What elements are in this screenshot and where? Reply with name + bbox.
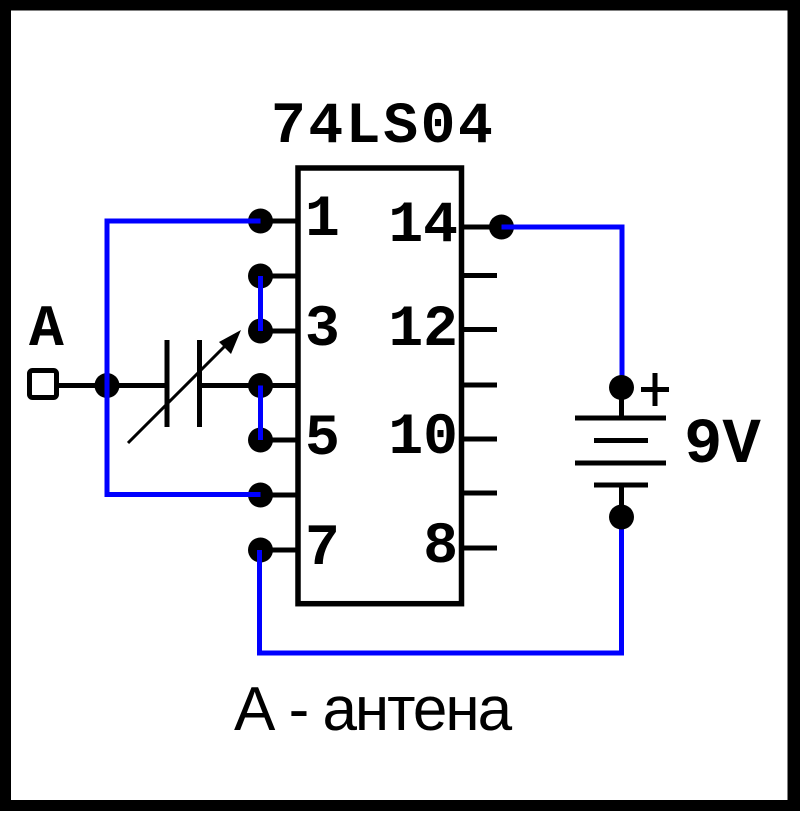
op-amp U1 74LS04 body xyxy=(298,168,462,604)
pin 2 stub xyxy=(248,264,298,289)
junction antenna wire with blue wire xyxy=(95,373,120,398)
wire pin 14 to battery positive xyxy=(502,227,623,383)
svg-text:А - антена: А - антена xyxy=(234,675,513,744)
battery BT1 negative lead xyxy=(619,485,624,505)
svg-text:3: 3 xyxy=(305,298,340,363)
svg-text:12: 12 xyxy=(388,298,458,363)
svg-text:74LS04: 74LS04 xyxy=(271,95,495,160)
wire pin 1 to pin 6 xyxy=(107,221,261,495)
battery BT1 plate 2 short xyxy=(594,438,648,443)
pin 11 stub xyxy=(462,383,497,388)
label 74LS04 xyxy=(271,95,495,160)
pin 3 stub xyxy=(248,319,298,344)
wire antenna terminal to capacitor C1 xyxy=(57,383,167,388)
label plus xyxy=(641,373,669,406)
pin 12 label xyxy=(388,298,458,363)
pin 3 label xyxy=(305,298,340,363)
pin 8 label xyxy=(423,515,458,580)
pin 10 label xyxy=(388,406,458,471)
svg-text:7: 7 xyxy=(305,517,340,582)
node battery negative terminal xyxy=(609,505,634,530)
pin 14 label xyxy=(388,194,458,259)
capacitor C1 right plate xyxy=(197,340,202,427)
pin 6 stub xyxy=(248,483,298,508)
pin 4 stub xyxy=(248,373,298,398)
node A antenna terminal xyxy=(30,371,57,398)
battery BT1 plate 4 short xyxy=(594,483,648,488)
svg-text:10: 10 xyxy=(388,406,458,471)
label 9V xyxy=(684,410,761,482)
pin 10 stub xyxy=(462,437,497,442)
pin 7 label xyxy=(305,517,340,582)
pin 5 label xyxy=(305,407,340,472)
battery BT1 plate 3 long xyxy=(575,461,666,466)
pin 13 stub xyxy=(462,273,497,278)
pin 12 stub xyxy=(462,327,497,332)
pin 1 label xyxy=(305,188,340,253)
svg-text:9V: 9V xyxy=(684,410,761,482)
svg-text:14: 14 xyxy=(388,194,458,259)
node battery positive terminal xyxy=(609,375,634,400)
wire pin 2 to pin 3 xyxy=(258,276,263,331)
wire pin 4 to pin 5 xyxy=(258,386,263,441)
pin 8 stub xyxy=(462,546,497,551)
svg-text:5: 5 xyxy=(305,407,340,472)
svg-text:1: 1 xyxy=(305,188,340,253)
wire capacitor C1 to pin 4 xyxy=(200,383,261,388)
pin 7 stub xyxy=(248,538,298,563)
capacitor C1 left plate xyxy=(165,340,170,427)
wire battery negative to pin 7 xyxy=(260,517,622,653)
battery BT1 positive lead xyxy=(619,388,624,419)
battery BT1 plate 1 long xyxy=(575,416,666,421)
pin 1 stub xyxy=(248,209,298,234)
svg-text:A: A xyxy=(29,298,64,363)
label A xyxy=(29,298,64,363)
pin 5 stub xyxy=(248,428,298,453)
pin 14 stub xyxy=(462,215,514,240)
pin 9 stub xyxy=(462,491,497,496)
label А - антена xyxy=(234,675,513,744)
capacitor C1 variable arrow xyxy=(128,330,241,443)
svg-text:8: 8 xyxy=(423,515,458,580)
